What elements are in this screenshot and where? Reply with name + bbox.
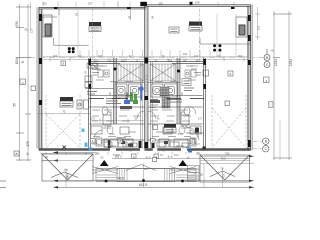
wall under stairs — [114, 82, 145, 84]
right unit label strip — [150, 100, 160, 103]
svg-text:39.2: 39.2 — [94, 60, 99, 63]
svg-text:34: 34 — [151, 15, 155, 19]
dashed chimney axis right — [199, 9, 201, 60]
right flight treads — [165, 169, 173, 182]
chimney box left wall — [43, 15, 52, 37]
wall fill bands — [37, 5, 253, 151]
dashed chimney axis left — [92, 9, 94, 60]
svg-text:170: 170 — [26, 141, 30, 147]
bottom-left dim row — [40, 152, 93, 155]
living room dim line — [37, 113, 91, 115]
svg-text:B: B — [266, 56, 268, 60]
dining table left — [54, 38, 89, 45]
text blob rows left — [87, 92, 121, 104]
svg-text:110: 110 — [257, 25, 261, 30]
interior wall y124 — [90, 123, 145, 125]
right dimension texts — [274, 59, 293, 66]
extra text noise rows 2 — [92, 116, 200, 146]
line break dashes margins — [0, 181, 6, 187]
svg-text:263: 263 — [238, 54, 243, 58]
svg-text:53: 53 — [75, 12, 79, 16]
green bars — [130, 93, 133, 102]
svg-text:263: 263 — [168, 60, 173, 63]
svg-text:280: 280 — [196, 152, 201, 156]
extra micro annotations — [64, 60, 224, 173]
svg-text:120: 120 — [98, 54, 103, 58]
dining table right — [200, 38, 251, 44]
extra text noise band mid dim row — [53, 54, 243, 58]
chimney link line — [43, 16, 57, 18]
tag box x228 — [228, 71, 233, 76]
terrace drain mark — [63, 146, 67, 149]
interior wall y62 right — [148, 62, 204, 64]
left side tread lines — [97, 175, 116, 180]
svg-text:750: 750 — [64, 169, 69, 172]
kitchen fixtures left — [98, 70, 109, 77]
top dim ticks left segment — [43, 2, 131, 21]
right wall — [248, 5, 251, 151]
interior wall y95 — [90, 95, 133, 97]
bottom wall — [39, 149, 251, 151]
dining dots left — [68, 47, 75, 53]
wall y98.5 segments — [89, 98, 204, 100]
top wall right unit — [146, 5, 251, 7]
mid dimension row — [43, 59, 248, 61]
left dimension line outer — [20, 4, 29, 161]
tick text row under bottom wall — [96, 152, 198, 155]
right porch dim — [222, 168, 224, 187]
svg-text:530: 530 — [15, 21, 19, 27]
shower tile grid right — [160, 87, 170, 108]
blue tag near wall left — [89, 148, 93, 152]
interior wall x89 left — [89, 58, 91, 149]
svg-text:34: 34 — [128, 15, 132, 19]
svg-text:137: 137 — [30, 28, 34, 33]
text blob rows right — [150, 88, 194, 102]
dining dots right — [213, 44, 221, 51]
door jambs dark — [139, 141, 142, 148]
dim line x30.5 — [30, 2, 32, 30]
bottom dimension texts — [116, 177, 147, 187]
left dimension texts — [13, 21, 31, 155]
interior gridline verticals — [59, 9, 236, 57]
svg-text:263: 263 — [53, 54, 58, 58]
wall y88 left — [85, 88, 114, 90]
text row above bottom wall left — [116, 138, 130, 140]
svg-text:613.5: 613.5 — [139, 183, 147, 187]
side steps right unit — [188, 166, 200, 182]
bowtie under right triangle — [170, 167, 196, 174]
left porch arrow dims — [42, 153, 95, 161]
left porch dim row — [42, 159, 93, 163]
right unit wall y133 — [186, 132, 204, 134]
left dimension ticks — [16, 7, 31, 160]
stair enclosure wall left — [114, 58, 117, 124]
svg-text:50: 50 — [200, 172, 204, 176]
kitchen text dashes — [92, 66, 201, 75]
inner wall face lines — [37, 5, 253, 150]
svg-text:63: 63 — [43, 2, 47, 6]
svg-text:263: 263 — [121, 60, 126, 63]
dashed terrace X left — [46, 95, 80, 150]
hanging tick row right unit — [152, 50, 220, 56]
central steps chevron — [126, 165, 156, 171]
bottom wall interior fixtures band — [104, 142, 189, 147]
svg-text:272: 272 — [198, 118, 203, 121]
window marker box right wall — [269, 102, 274, 108]
right dimension ticks — [273, 14, 292, 158]
boiler boxes left — [77, 100, 89, 109]
bath band dark bits — [121, 141, 125, 144]
mid dim row second line — [43, 55, 248, 57]
interior wall y107 — [90, 106, 145, 108]
closet box right wall — [236, 17, 247, 37]
interior wall y62 left — [88, 62, 145, 64]
mid dim row ticks — [50, 58, 244, 62]
kitchen box X — [92, 64, 98, 70]
svg-text:40: 40 — [21, 60, 25, 64]
vanity left 2 — [129, 84, 142, 97]
gridline tick x59 — [58, 7, 60, 15]
right dimension lines — [274, 11, 289, 160]
svg-text:16: 16 — [158, 2, 162, 6]
downpipe dots — [105, 179, 184, 182]
bath fixtures row right — [159, 126, 201, 147]
top wall left unit — [39, 7, 146, 9]
cyan highlight marks — [82, 129, 85, 133]
door arc right — [191, 131, 198, 138]
entry triangle left — [100, 160, 109, 166]
staircase right — [150, 64, 176, 81]
svg-text:35: 35 — [13, 103, 17, 107]
circle letters — [265, 56, 269, 151]
right unit door arcs — [186, 107, 199, 141]
svg-text:272: 272 — [91, 118, 96, 121]
top dim texts — [43, 1, 200, 6]
svg-text:161: 161 — [183, 52, 188, 56]
svg-text:90: 90 — [25, 28, 29, 32]
svg-text:120: 120 — [194, 54, 199, 58]
extra bath row fixtures right — [166, 126, 196, 146]
wall black fill segments — [39, 14, 251, 148]
svg-text:5.56: 5.56 — [110, 133, 115, 136]
svg-text:137: 137 — [87, 2, 92, 6]
central steps dim — [143, 163, 145, 187]
bottom wall hatch darkening — [39, 149, 251, 151]
gridline dash-dot middle — [19, 57, 264, 59]
right unit dark stove — [195, 128, 199, 133]
extra bath row fixtures left — [96, 126, 126, 146]
bed right — [181, 112, 189, 125]
gridline dash-dot bottom — [253, 140, 262, 142]
right porch extra dims — [200, 156, 254, 188]
blue green tags top — [124, 100, 130, 104]
svg-text:750: 750 — [220, 157, 225, 161]
entry triangle right — [178, 160, 187, 166]
junction dots — [114, 68, 117, 71]
rotated small texts — [75, 12, 155, 19]
label tag left room — [87, 63, 97, 68]
bottom dimension line 2 — [55, 181, 254, 188]
party wall shaft hatch — [145, 76, 148, 91]
bottom dimension line 1 — [112, 158, 250, 160]
dense bottom band texts — [45, 152, 230, 159]
svg-text:B: B — [15, 152, 17, 156]
svg-text:5+0: 5+0 — [174, 153, 179, 157]
second label right — [169, 27, 179, 33]
party wall hall line bundles — [141, 62, 153, 148]
vanity right 1 — [151, 84, 163, 97]
toilets — [102, 107, 190, 115]
bottom wall door gaps — [110, 148, 187, 151]
blue lamp symbol — [139, 86, 144, 91]
hanging tick row left unit — [80, 50, 143, 56]
arrowheads bottom dims — [53, 155, 254, 189]
scattered tiny text noise interior — [92, 66, 198, 137]
right side tread lines — [176, 175, 195, 180]
label S12 right — [182, 79, 191, 86]
svg-text:72: 72 — [62, 110, 66, 114]
bottom dim texts small — [115, 155, 173, 159]
interior wall x202 right — [204, 58, 206, 149]
svg-text:TH3.0: TH3.0 — [113, 153, 121, 157]
tag squares — [14, 61, 269, 162]
top dim ticks above wall — [58, 2, 234, 8]
kitchen fixtures right — [185, 70, 196, 77]
svg-text:280: 280 — [95, 152, 100, 156]
svg-text:41.5: 41.5 — [146, 156, 151, 159]
party wall — [145, 6, 149, 151]
svg-text:B: B — [265, 140, 267, 144]
svg-text:1234: 1234 — [274, 59, 278, 66]
interior wall y140 — [102, 139, 145, 141]
room tag row y140 — [91, 139, 195, 144]
bed left — [103, 112, 111, 125]
left porch dim — [65, 168, 67, 187]
party wall door arcs — [137, 111, 156, 119]
hall dim line left — [90, 119, 144, 123]
dark bar left — [126, 93, 129, 102]
svg-text:39.2: 39.2 — [196, 60, 201, 63]
left wall — [39, 7, 42, 150]
vanity left 1 — [115, 84, 127, 97]
room label box L2 TARAS — [60, 97, 73, 107]
right porch — [200, 155, 250, 182]
window box right wall x205 — [203, 70, 209, 76]
vanity right 2 — [165, 84, 178, 97]
svg-text:208: 208 — [223, 173, 226, 178]
kitchen counter left — [85, 76, 92, 88]
door arc left — [95, 131, 102, 138]
right bay dim line — [255, 7, 260, 40]
left porch — [42, 154, 93, 181]
svg-text:139: 139 — [194, 1, 199, 5]
bath fixtures row left — [91, 126, 133, 147]
svg-text:272: 272 — [205, 63, 208, 68]
room label box R2 — [164, 124, 176, 133]
room label box R1 — [189, 22, 202, 32]
gridline bubbles right middle — [264, 49, 270, 68]
central entry steps — [96, 169, 196, 182]
dashed terrace X right — [212, 95, 246, 150]
rear wall bundle left — [108, 140, 111, 148]
gridline bubbles bottom right — [263, 138, 269, 152]
hall label strip left — [120, 106, 132, 109]
staircase left — [118, 64, 144, 81]
stair enclosure wall right — [177, 58, 180, 124]
svg-text:750: 750 — [225, 152, 230, 156]
right dim mid line lower — [279, 120, 281, 160]
party wall chimney black — [140, 2, 147, 6]
svg-text:208: 208 — [67, 175, 70, 180]
bowtie under left triangle — [92, 167, 118, 174]
room label box L1 — [89, 22, 101, 32]
text 90 and 40 left — [21, 28, 28, 65]
svg-text:1094: 1094 — [15, 57, 19, 64]
top wall segments dark — [54, 2, 235, 9]
svg-text:1234: 1234 — [289, 59, 293, 66]
svg-text:5+0: 5+0 — [168, 155, 173, 159]
left flight treads — [120, 169, 128, 182]
